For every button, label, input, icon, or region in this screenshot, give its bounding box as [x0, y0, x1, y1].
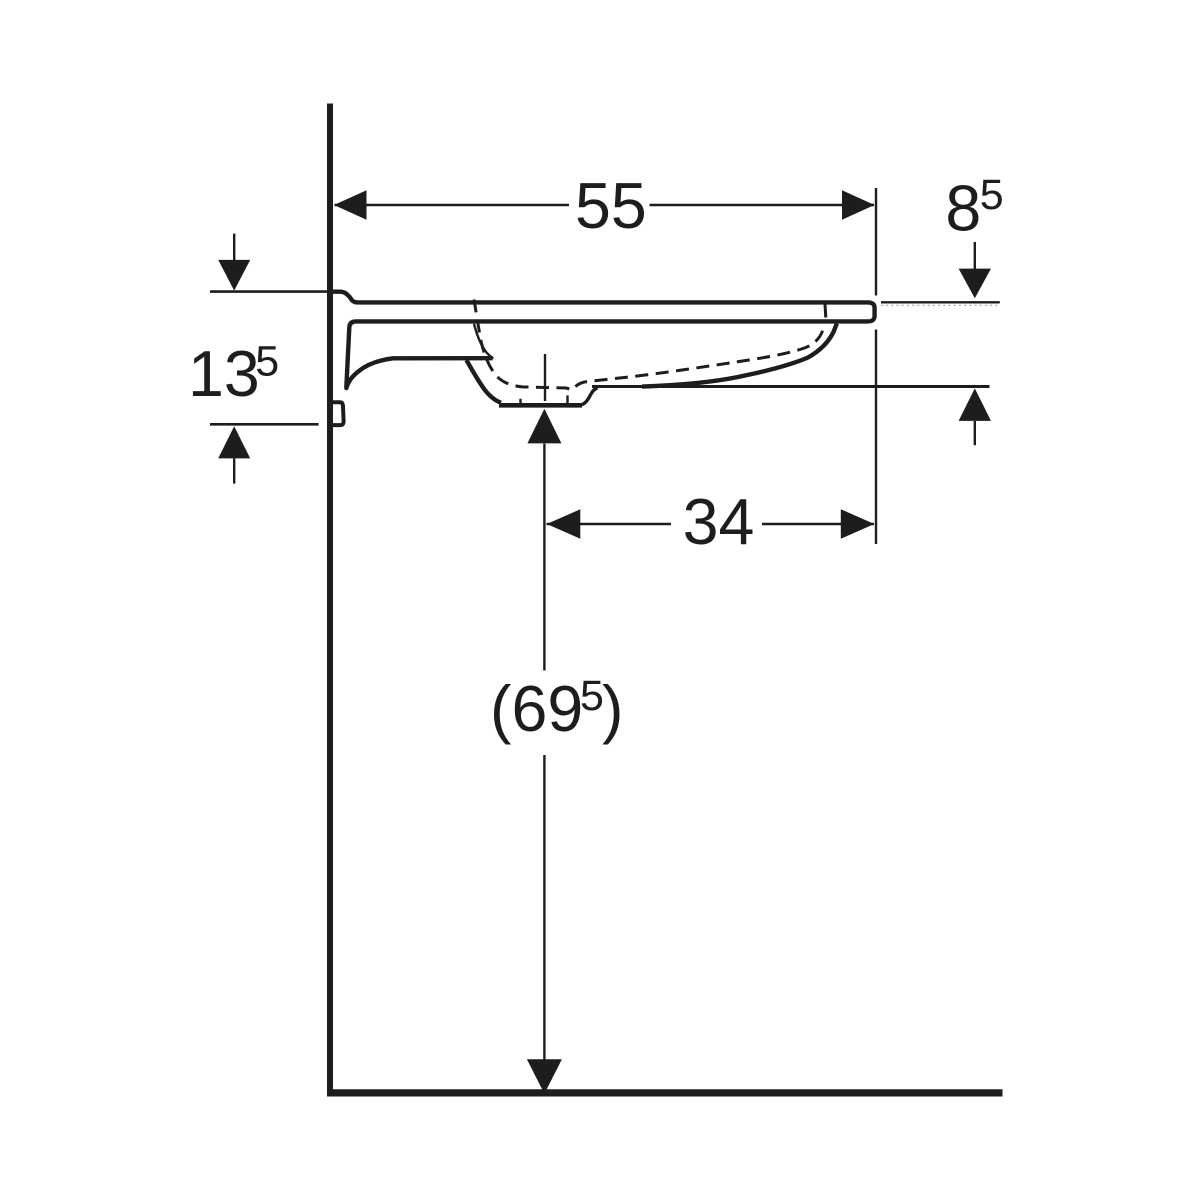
svg-text:): )	[602, 673, 623, 745]
svg-text:5: 5	[980, 171, 1004, 219]
svg-text:34: 34	[683, 486, 755, 558]
svg-text:8: 8	[945, 172, 981, 244]
svg-text:13: 13	[188, 338, 260, 410]
svg-text:55: 55	[575, 170, 647, 242]
svg-text:5: 5	[255, 337, 279, 385]
svg-text:5: 5	[580, 672, 604, 720]
svg-text:(69: (69	[490, 673, 583, 745]
